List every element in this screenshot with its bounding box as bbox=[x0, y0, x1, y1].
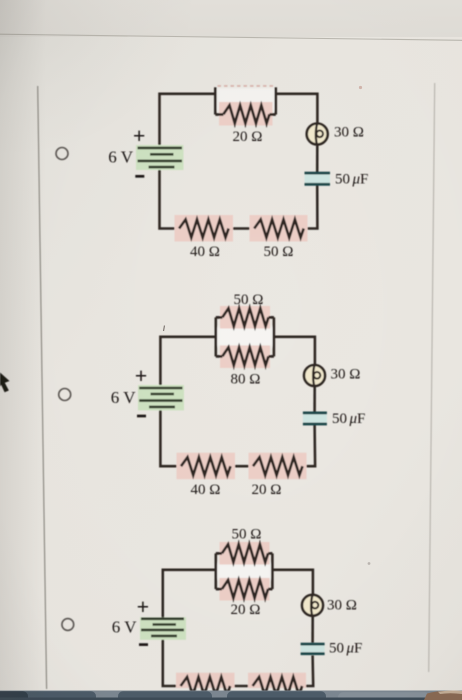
tick near circuit 2 top left corner bbox=[164, 326, 165, 332]
parallel box white interior (circuit 2) bbox=[217, 328, 273, 347]
wire: battery + up and right to parallel bracket (circuit 3) bbox=[163, 570, 216, 619]
capacitor 50μF (circuit 2) bbox=[303, 412, 327, 426]
parallel box white interior (circuit 3) bbox=[217, 564, 271, 580]
wire: parallel bracket to lamp (circuit 2) bbox=[274, 337, 315, 365]
capacitor 50μF (circuit 1) bbox=[305, 172, 331, 186]
parallel bracket left (circuit 1) bbox=[214, 87, 217, 114]
resistor 20Ω (circuit 1) bbox=[215, 105, 275, 123]
resistor 50Ω highlight (circuit 3) bbox=[220, 542, 270, 565]
resistor 20Ω highlight (circuit 1) bbox=[219, 102, 273, 126]
battery − sign (circuit 1) bbox=[135, 175, 144, 178]
speck near circuit 3 top right bbox=[368, 562, 371, 565]
battery − sign (circuit 3) bbox=[139, 643, 148, 646]
wire: bottom wire between resistors (circuit 2) bbox=[231, 465, 253, 468]
battery 6V (circuit 3) bbox=[140, 617, 186, 640]
radio button option A bbox=[56, 148, 68, 160]
parallel bracket left (circuit 3) bbox=[215, 553, 218, 589]
speck near circuit 1 top right bbox=[359, 86, 362, 89]
parallel bracket left (circuit 2) bbox=[215, 317, 218, 356]
bottom taskbar band bbox=[0, 691, 462, 700]
wire: bottom wire between resistors (circuit 1) bbox=[229, 227, 255, 230]
resistor 50Ω highlight (circuit 1) bbox=[250, 215, 308, 242]
resistor 20Ω bottom branch (circuit 3) bbox=[216, 580, 273, 598]
wire: battery + up and right to parallel bracket (circuit 2) bbox=[160, 337, 215, 388]
resistor 40Ω (circuit 1) bbox=[179, 220, 229, 238]
resistor 40Ω highlight (circuit 1) bbox=[175, 215, 234, 242]
resistor 50Ω top branch (circuit 3) bbox=[216, 544, 273, 562]
resistor highlight bottom-right (circuit 3) bbox=[248, 673, 306, 688]
wire: lamp to capacitor (circuit 2) bbox=[313, 386, 316, 412]
wire: parallel bracket to lamp (circuit 3) bbox=[272, 570, 313, 595]
resistor 80Ω highlight (circuit 2) bbox=[220, 346, 270, 369]
wire: battery + terminal up and right to parallel bracket (circuit 1) bbox=[160, 94, 216, 149]
wire: lamp to capacitor (circuit 1) bbox=[316, 145, 319, 173]
resistor 20Ω highlight (circuit 3) bbox=[220, 578, 270, 601]
wire: capacitor down to bottom-right corner (circuit 1) bbox=[303, 185, 318, 229]
right table border line bbox=[429, 83, 435, 672]
radio button option B bbox=[59, 389, 71, 401]
wire: bottom-left corner up to battery − (circuit 3) bbox=[163, 636, 181, 686]
resistor 20Ω highlight (circuit 2) bbox=[249, 453, 307, 480]
resistor 50Ω top branch (circuit 2) bbox=[216, 308, 274, 326]
parallel bracket right (circuit 2) bbox=[273, 317, 276, 356]
mouse cursor arrow at left edge bbox=[0, 373, 10, 393]
wire: capacitor to bottom-right corner (circuit 2) bbox=[303, 425, 315, 466]
lamp 30Ω (circuit 1) bbox=[307, 124, 328, 145]
resistor 80Ω bottom branch (circuit 2) bbox=[216, 347, 274, 365]
parallel bracket right (circuit 1) bbox=[275, 87, 278, 114]
left table border line bbox=[38, 86, 47, 689]
lamp 30Ω (circuit 2) bbox=[304, 365, 325, 386]
parallel bracket right (circuit 3) bbox=[271, 553, 274, 589]
radio button option C bbox=[62, 619, 74, 631]
resistor 20Ω bottom (circuit 2) bbox=[253, 457, 303, 475]
resistor 50Ω highlight (circuit 2) bbox=[220, 306, 270, 329]
resistor 40Ω highlight (circuit 2) bbox=[177, 453, 236, 480]
wire: bottom wire between resistors (circuit 3) bbox=[230, 685, 253, 688]
capacitor 50μF (circuit 3) bbox=[301, 643, 325, 655]
resistor bottom-left partially cut (circuit 3) bbox=[181, 677, 231, 695]
faint remnant of removed resistor highlight (circuit 1) bbox=[218, 85, 276, 87]
wire: lamp to capacitor (circuit 3) bbox=[311, 616, 314, 643]
battery 6V (circuit 2) bbox=[138, 385, 184, 410]
resistor bottom-right partially cut (circuit 3) bbox=[253, 677, 303, 695]
wire: bottom-left corner up to battery - terminal (circuit 1) bbox=[160, 167, 180, 229]
lamp 30Ω (circuit 3) bbox=[302, 595, 323, 616]
erased top branch white patch (circuit 1) bbox=[217, 88, 275, 111]
resistor highlight bottom-left (circuit 3) bbox=[176, 673, 235, 688]
resistor 50Ω (circuit 1) bbox=[254, 220, 304, 238]
wire: right of parallel bracket to lamp (circuit 1) bbox=[276, 94, 318, 124]
wire: bottom-left corner up to battery − (circuit 2) bbox=[160, 407, 181, 467]
top header strip bbox=[0, 0, 462, 37]
battery − sign (circuit 2) bbox=[137, 415, 146, 418]
resistor 40Ω (circuit 2) bbox=[181, 457, 231, 475]
wire: capacitor to bottom-right corner (circuit 3) bbox=[302, 656, 313, 687]
header divider line bbox=[0, 34, 462, 40]
battery 6V (circuit 1) bbox=[136, 145, 184, 170]
